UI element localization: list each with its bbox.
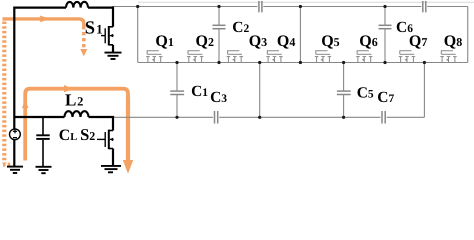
svg-text:Q7: Q7 <box>409 33 427 50</box>
svg-text:Q3: Q3 <box>249 33 267 50</box>
svg-text:Q2: Q2 <box>196 33 214 50</box>
svg-text:Q6: Q6 <box>359 33 377 50</box>
svg-text:Q5: Q5 <box>321 33 339 50</box>
svg-text:Q4: Q4 <box>277 33 295 50</box>
svg-text:Q8: Q8 <box>444 33 462 50</box>
svg-text:S1: S1 <box>85 19 103 39</box>
svg-text:Q1: Q1 <box>155 33 173 50</box>
